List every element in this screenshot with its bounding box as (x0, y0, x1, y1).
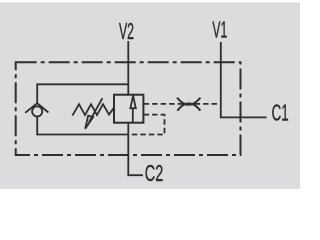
svg-text:V1: V1 (212, 17, 227, 43)
svg-text:C1: C1 (272, 99, 289, 125)
svg-text:C2: C2 (145, 160, 164, 186)
svg-text:V2: V2 (119, 18, 134, 44)
